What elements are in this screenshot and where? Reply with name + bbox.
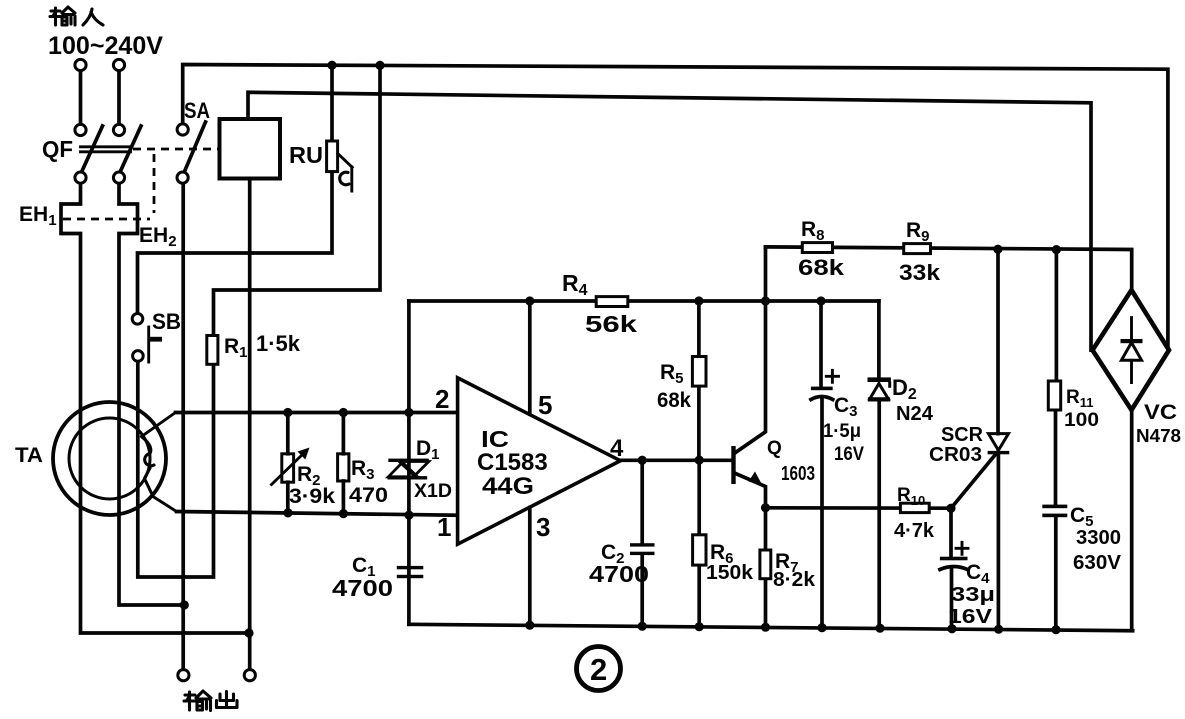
- svg-text:1: 1: [437, 512, 451, 542]
- svg-text:VC: VC: [1144, 401, 1177, 424]
- svg-text:16V: 16V: [834, 444, 864, 465]
- svg-text:4·7k: 4·7k: [894, 520, 935, 542]
- svg-text:2: 2: [590, 652, 607, 687]
- svg-text:44G: 44G: [482, 473, 534, 500]
- svg-text:68k: 68k: [798, 255, 845, 280]
- svg-text:N24: N24: [896, 403, 934, 425]
- svg-text:Q: Q: [767, 438, 782, 459]
- svg-text:C1583: C1583: [477, 449, 548, 476]
- svg-text:SCR: SCR: [941, 424, 984, 446]
- svg-text:100~240V: 100~240V: [48, 32, 163, 60]
- svg-text:68k: 68k: [657, 389, 691, 412]
- svg-text:2: 2: [435, 384, 449, 414]
- svg-text:33μ: 33μ: [951, 584, 995, 606]
- svg-text:3·9k: 3·9k: [289, 485, 335, 508]
- svg-text:3300: 3300: [1076, 527, 1121, 549]
- svg-text:100: 100: [1064, 410, 1099, 431]
- svg-text:QF: QF: [42, 136, 73, 162]
- svg-text:16V: 16V: [948, 606, 993, 628]
- svg-text:X1D: X1D: [414, 481, 452, 502]
- svg-text:470: 470: [349, 484, 388, 507]
- svg-text:8·2k: 8·2k: [773, 569, 816, 591]
- svg-text:56k: 56k: [585, 311, 637, 337]
- svg-text:1·5k: 1·5k: [256, 331, 301, 356]
- svg-text:RU: RU: [289, 142, 323, 168]
- svg-text:5: 5: [538, 390, 552, 420]
- svg-text:N478: N478: [1136, 426, 1181, 446]
- svg-text:SB: SB: [152, 309, 181, 334]
- svg-text:33k: 33k: [899, 260, 941, 285]
- svg-text:630V: 630V: [1073, 552, 1122, 574]
- svg-text:CR03: CR03: [929, 444, 982, 466]
- svg-text:4700: 4700: [332, 575, 393, 601]
- svg-text:SA: SA: [184, 98, 210, 123]
- svg-text:1603: 1603: [781, 463, 815, 485]
- svg-text:TA: TA: [15, 444, 43, 467]
- svg-text:1·5μ: 1·5μ: [823, 421, 861, 442]
- svg-text:3: 3: [536, 512, 550, 542]
- svg-text:4700: 4700: [589, 561, 649, 587]
- svg-text:4: 4: [610, 435, 624, 462]
- svg-text:150k: 150k: [706, 562, 754, 584]
